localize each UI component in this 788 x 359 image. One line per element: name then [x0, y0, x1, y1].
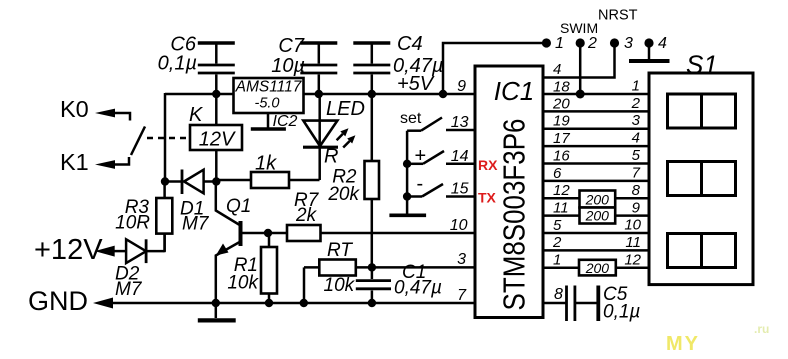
wire IC1 pin 16 to S1 pin 5 — [543, 162, 649, 165]
svg-text:Q1: Q1 — [226, 196, 251, 217]
svg-text:+5V: +5V — [397, 73, 435, 95]
wire +5V rail (right segment to IC1 pin 9) — [303, 93, 475, 96]
svg-text:SWIM: SWIM — [560, 20, 598, 36]
svg-text:20k: 20k — [327, 184, 360, 205]
svg-text:5: 5 — [632, 147, 641, 164]
svg-text:4: 4 — [658, 35, 667, 52]
svg-text:12: 12 — [553, 182, 570, 199]
svg-text:9: 9 — [457, 78, 466, 95]
svg-text:1: 1 — [632, 78, 640, 95]
svg-text:15: 15 — [451, 181, 469, 198]
svg-text:200: 200 — [585, 208, 610, 224]
wire IC1 pin 1 to S1 pin 12 — [543, 266, 649, 269]
node header pin 2 SWIM — [576, 38, 585, 47]
node SWIM/pin18 junction — [576, 90, 585, 99]
resistor 200 (pin 11) — [580, 208, 616, 224]
svg-text:11: 11 — [625, 234, 641, 251]
resistor R1 — [261, 233, 277, 303]
svg-text:K: K — [189, 104, 204, 126]
svg-text:NRST: NRST — [598, 8, 638, 24]
svg-text:5: 5 — [553, 217, 562, 234]
svg-text:12V: 12V — [199, 129, 236, 151]
node header pin 4 — [644, 38, 653, 47]
resistor R2 — [365, 94, 380, 267]
capacitor C5 — [567, 286, 598, 322]
svg-text:10k: 10k — [227, 273, 259, 294]
svg-text:3: 3 — [457, 251, 466, 268]
node bus/+ button junction — [403, 160, 411, 168]
svg-text:1: 1 — [553, 252, 561, 269]
svg-text:16: 16 — [553, 148, 570, 165]
wire IC1 pin 5 to S1 pin 10 — [543, 232, 649, 235]
node GND/R1 junction — [265, 299, 273, 307]
svg-text:4: 4 — [632, 130, 640, 147]
svg-text:14: 14 — [451, 148, 469, 165]
node D1 anode junction — [212, 177, 220, 185]
svg-text:9: 9 — [632, 200, 641, 217]
ground (IC2) — [251, 113, 286, 129]
svg-text:GND: GND — [28, 286, 88, 316]
capacitor C4 — [353, 43, 390, 94]
svg-text:200: 200 — [585, 192, 610, 208]
node +5V/riser junction — [439, 90, 447, 98]
wire R7 to IC1 pin 10 — [321, 232, 476, 235]
svg-text:C4: C4 — [397, 33, 423, 55]
wire IC1 pin 6 to S1 pin 7 — [543, 180, 649, 183]
svg-text:10k: 10k — [324, 275, 356, 296]
wire +5V riser to header pin 1 — [443, 43, 542, 94]
svg-text:7: 7 — [457, 287, 467, 304]
svg-text:0,47µ: 0,47µ — [394, 278, 442, 299]
node C4/rail junction — [368, 90, 376, 98]
transistor Q1 — [216, 182, 251, 304]
capacitor C1 — [356, 267, 391, 303]
node GND/Q1 emitter junction — [212, 299, 220, 307]
wire K0 contact with arrow — [95, 109, 130, 121]
display digit cell 1 — [668, 94, 736, 128]
wire IC1 pin 11 to S1 pin 9 — [543, 214, 649, 217]
dashed mechanical link to relay — [147, 137, 190, 140]
wire node to IC1 pin 3 — [372, 266, 475, 269]
wire K1 contact with arrow — [95, 157, 129, 169]
svg-text:2: 2 — [587, 35, 597, 52]
svg-text:2k: 2k — [295, 205, 318, 226]
diode D1 — [165, 170, 216, 195]
svg-text:10: 10 — [450, 217, 468, 234]
svg-text:IC1: IC1 — [494, 76, 534, 106]
resistor RT (thermistor) — [304, 260, 372, 304]
display S1 — [649, 50, 753, 285]
svg-text:8: 8 — [632, 182, 641, 199]
regulator IC2 AMS1117 — [234, 78, 304, 113]
node bus/- button junction — [403, 192, 411, 200]
capacitor C6 — [198, 43, 235, 94]
svg-text:8: 8 — [554, 286, 563, 303]
svg-text:K1: K1 — [60, 149, 89, 175]
svg-text:R: R — [324, 146, 338, 168]
svg-text:18: 18 — [553, 79, 570, 96]
svg-text:M7: M7 — [115, 279, 143, 300]
svg-text:LED: LED — [326, 98, 365, 120]
wire +12V rail left riser — [164, 93, 167, 181]
node R2/RT/C1/pin3 junction — [368, 263, 376, 271]
node header pin 3 NRST — [610, 38, 619, 47]
svg-text:RT: RT — [327, 240, 353, 261]
diode D2 — [126, 239, 165, 263]
svg-text:19: 19 — [553, 113, 570, 130]
pushbutton set (pin 13) — [407, 118, 475, 131]
svg-text:11: 11 — [553, 200, 569, 217]
pushbutton - (pin 15) — [407, 184, 475, 197]
wire IC1 pin 2 to S1 pin 11 — [543, 249, 649, 252]
svg-text:1: 1 — [555, 35, 564, 52]
LED — [303, 94, 355, 180]
svg-text:+12V: +12V — [34, 234, 103, 266]
svg-text:AMS1117: AMS1117 — [235, 79, 303, 96]
wire IC1 pin 8 to C5 — [543, 302, 566, 305]
svg-text:1k: 1k — [255, 153, 277, 175]
node GND/RT junction — [300, 299, 308, 307]
node GND/C1 junction — [368, 299, 376, 307]
svg-text:set: set — [400, 110, 422, 127]
resistor 200 (pin 12) — [580, 191, 616, 208]
node C6/rail junction — [212, 90, 220, 98]
microcontroller IC1 STM8S003F3P6 — [475, 66, 543, 318]
wire D2 to R3 riser — [163, 234, 166, 253]
resistor 1k (base of relay driver) — [216, 172, 319, 188]
svg-text:MY: MY — [666, 333, 700, 355]
pushbutton + (pin 14) — [407, 151, 475, 164]
relay K coil — [190, 125, 242, 151]
node Q1 base junction — [264, 229, 272, 237]
svg-text:2: 2 — [552, 234, 562, 251]
resistor R3 — [156, 182, 172, 252]
svg-text:-: - — [417, 173, 424, 195]
svg-text:0,1µ: 0,1µ — [158, 53, 197, 75]
svg-text:12: 12 — [624, 252, 641, 269]
wire NRST riser to pin 4 row — [543, 43, 615, 78]
wire IC1 pin 12 to S1 pin 8 — [543, 197, 649, 200]
ground (header pin 4) — [629, 43, 670, 61]
ground (chassis, bottom) — [198, 303, 236, 320]
pushbutton bus ground column — [389, 131, 426, 216]
svg-text:+: + — [415, 145, 427, 167]
svg-text:2: 2 — [631, 95, 641, 112]
wire IC1 pin 18 to S1 pin 1 — [543, 93, 649, 96]
wire relay bottom lead — [215, 150, 218, 181]
svg-text:10µ: 10µ — [271, 55, 305, 77]
svg-text:6: 6 — [553, 165, 562, 182]
svg-text:7: 7 — [632, 165, 641, 182]
svg-text:0,1µ: 0,1µ — [603, 302, 640, 323]
capacitor C7 — [300, 43, 337, 94]
svg-text:C7: C7 — [278, 35, 304, 57]
svg-text:.ru: .ru — [754, 322, 769, 336]
svg-text:20: 20 — [552, 96, 570, 113]
svg-text:STM8S003F3P6: STM8S003F3P6 — [497, 119, 532, 311]
svg-text:TX: TX — [478, 190, 497, 206]
wire IC1 pin 19 to S1 pin 3 — [543, 127, 649, 130]
switch blade (relay contact) — [131, 127, 145, 156]
svg-text:10: 10 — [624, 217, 641, 234]
wire +12V rail (left segment) — [165, 93, 234, 96]
wire GND rail with arrow — [93, 298, 475, 309]
svg-text:RX: RX — [478, 157, 498, 173]
node C7/rail junction — [315, 90, 323, 98]
svg-text:13: 13 — [451, 114, 469, 131]
ground (C5) — [596, 286, 600, 322]
svg-text:S1: S1 — [686, 50, 718, 80]
wire IC1 pin 17 to S1 pin 4 — [543, 145, 649, 148]
resistor R7 — [251, 225, 321, 241]
svg-text:200: 200 — [585, 260, 610, 276]
svg-text:M7: M7 — [182, 214, 210, 235]
display digit cell 3 — [668, 234, 736, 268]
wire IC1 pin 20 to S1 pin 2 — [543, 110, 649, 113]
node D1 cathode junction — [161, 177, 169, 185]
svg-text:-5.0: -5.0 — [255, 96, 280, 112]
svg-text:4: 4 — [553, 61, 561, 78]
wire SWIM riser to pin 18 row — [579, 43, 582, 94]
svg-text:3: 3 — [632, 112, 641, 129]
wire +12V input with arrow — [95, 246, 126, 257]
display digit cell 2 — [668, 162, 736, 196]
svg-text:17: 17 — [553, 130, 570, 147]
svg-text:3: 3 — [624, 35, 633, 52]
resistor 200 (pin 1) — [579, 260, 616, 276]
node header pin 1 — [542, 38, 551, 47]
wire relay top lead — [215, 94, 218, 125]
svg-text:K0: K0 — [60, 96, 89, 122]
svg-text:10R: 10R — [115, 213, 150, 234]
